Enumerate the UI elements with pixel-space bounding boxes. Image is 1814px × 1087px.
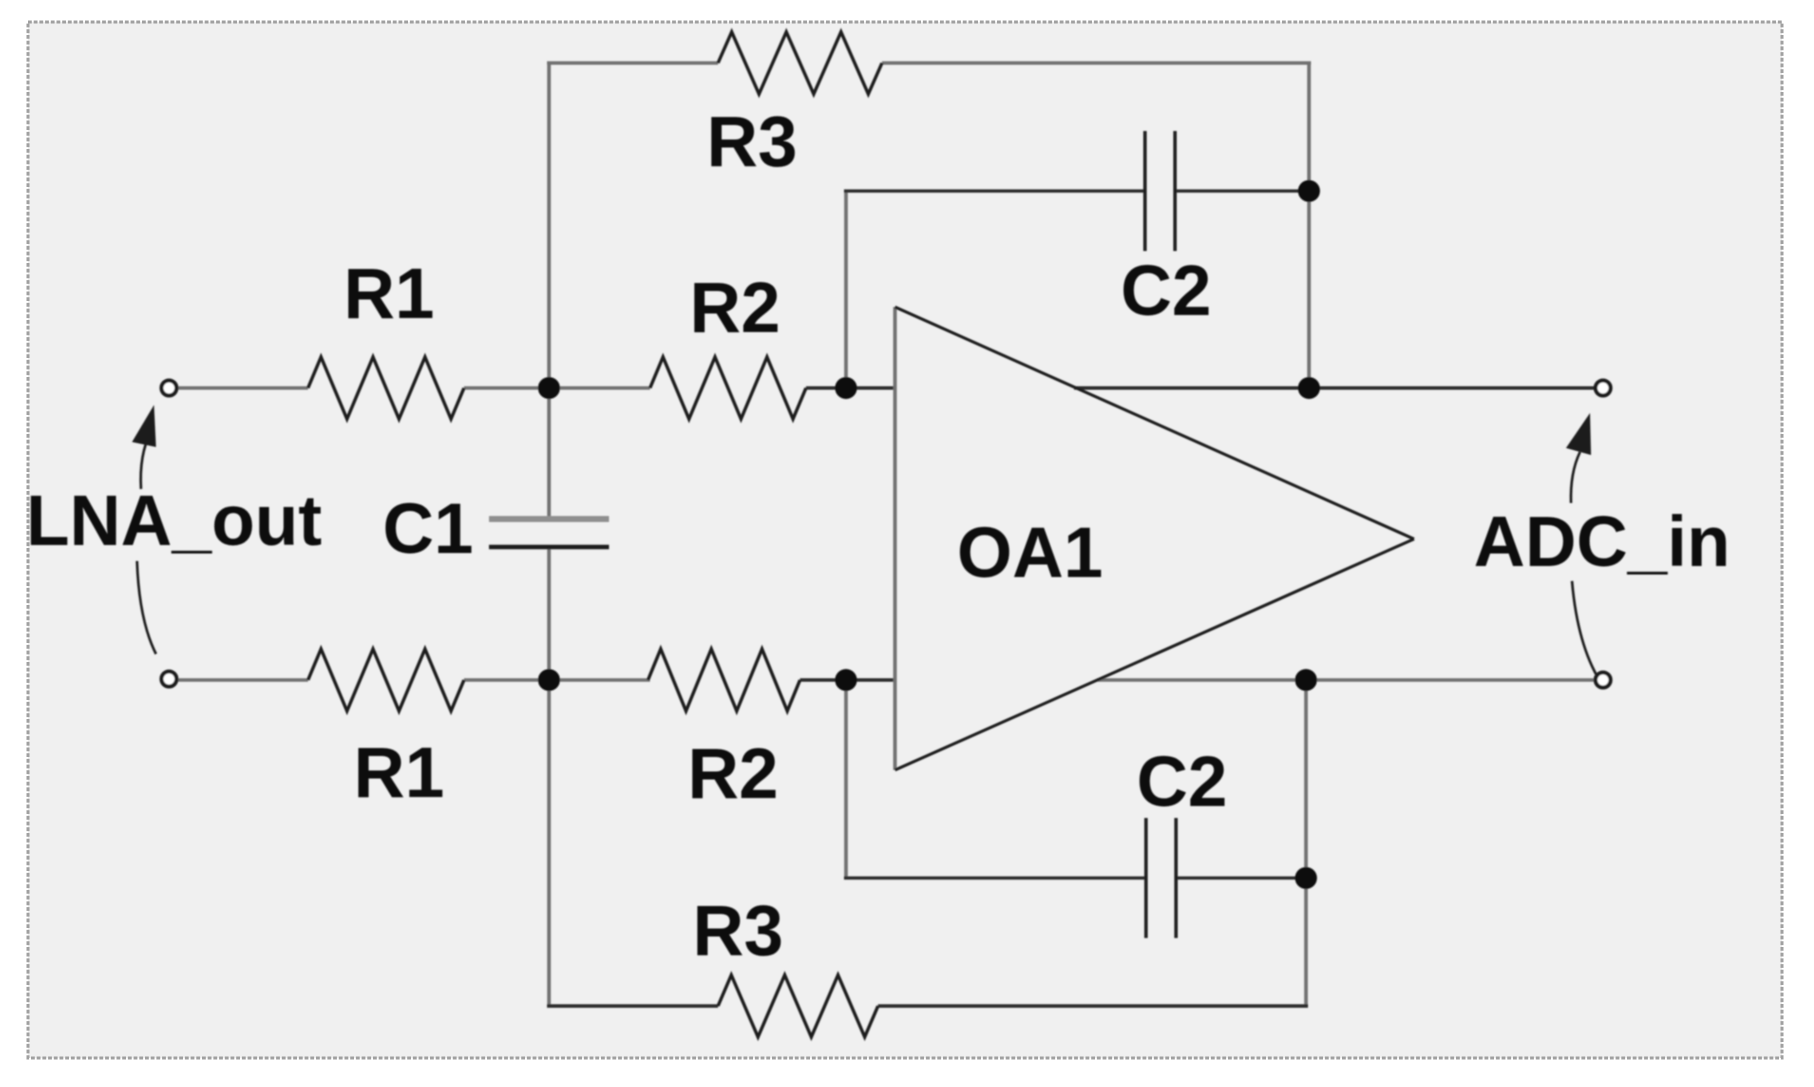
wire: center vertical net at x=549 upper section to R3 top: [547, 63, 551, 519]
wire: bottom input lead: [177, 678, 308, 682]
svg-text:C2: C2: [1137, 743, 1228, 822]
wire: bottom rail between R1 and R2: [464, 678, 650, 682]
op-amp OA1 top slant edge: [895, 307, 1414, 539]
junction node: output bottom: [1295, 669, 1317, 691]
wire: R3 top feedback horizontal right segment: [882, 61, 1311, 65]
svg-text:LNA_out: LNA_out: [26, 482, 322, 561]
svg-text:R1: R1: [344, 255, 435, 334]
junction node: output top: [1298, 377, 1320, 399]
op-amp OA1 left edge: [893, 307, 897, 770]
wire: C2 bottom lead right: [1176, 876, 1308, 879]
junction node: inverting input top: [835, 377, 857, 399]
LNA_out lower curve: [137, 561, 156, 654]
svg-text:R1: R1: [354, 734, 445, 813]
capacitor C2 top plates: [1143, 131, 1146, 251]
capacitor C2 bottom plates: [1144, 818, 1147, 938]
wire: R3 top feedback horizontal left segment: [547, 61, 718, 65]
wire: C2 top left drop to inverting input node: [844, 191, 848, 388]
resistor R3 (bottom feedback): [718, 975, 878, 1037]
terminal: LNA_out plus: [162, 381, 177, 396]
svg-text:R2: R2: [690, 269, 781, 348]
junction node: C2 top right: [1298, 180, 1320, 202]
wire: C2 top lead right: [1175, 189, 1311, 192]
capacitor C1 bottom plate: [489, 545, 609, 550]
terminal: LNA_out minus: [162, 672, 177, 687]
resistor R1 (top): [308, 357, 464, 419]
wire: bottom output rail: [1097, 678, 1596, 682]
wire: R3 bottom feedback horizontal left segment: [547, 1004, 718, 1007]
svg-text:R3: R3: [707, 103, 798, 182]
wire: bottom rail stub from R2 to op-amp input: [800, 678, 896, 681]
op-amp OA1 bottom slant edge: [895, 539, 1414, 770]
resistor R1 (bottom): [308, 649, 464, 711]
junction node: C2 bottom right: [1295, 867, 1317, 889]
ADC_in lower curve: [1572, 581, 1597, 676]
terminal: ADC_in minus: [1596, 673, 1611, 688]
wire: right feedback vertical bottom: [1304, 680, 1308, 1006]
junction node: C1/R1/R2 top: [538, 377, 560, 399]
wire: top output rail: [1074, 386, 1596, 389]
resistor R2 (bottom): [648, 649, 800, 711]
wire: top rail stub from R2 to op-amp input: [806, 386, 896, 389]
wire: C2 bottom left drop to input node: [844, 680, 848, 878]
svg-text:R2: R2: [688, 735, 779, 814]
svg-text:R3: R3: [693, 892, 784, 971]
svg-text:OA1: OA1: [957, 514, 1103, 593]
resistor R2 (top): [650, 357, 806, 419]
wire: C2 top lead left: [844, 189, 1145, 192]
svg-text:C1: C1: [383, 490, 474, 569]
ADC_in arrowhead: [1566, 413, 1591, 455]
wire: top rail between R1 and R2 (node through C1 top junction): [464, 386, 650, 390]
wire: top input lead: [177, 386, 308, 390]
wire: center vertical net at x=549 lower section to R3 bottom: [547, 548, 551, 1006]
wire: R3 bottom feedback horizontal right segment: [878, 1004, 1308, 1007]
junction node: input bottom: [835, 669, 857, 691]
svg-text:C2: C2: [1121, 252, 1212, 331]
svg-text:ADC_in: ADC_in: [1474, 503, 1730, 582]
wire: C2 bottom lead left: [844, 876, 1146, 879]
junction node: C1/R1/R2 bottom: [538, 669, 560, 691]
wire: right feedback vertical top (R3/C2 to output): [1307, 63, 1311, 388]
ADC_in arrow shaft (upper): [1571, 452, 1580, 503]
LNA_out arrow shaft (upper): [141, 431, 151, 489]
resistor R3 (top feedback): [718, 32, 882, 94]
terminal: ADC_in plus: [1596, 381, 1611, 396]
capacitor C1 top plate: [489, 516, 609, 522]
LNA_out arrowhead: [132, 405, 156, 447]
